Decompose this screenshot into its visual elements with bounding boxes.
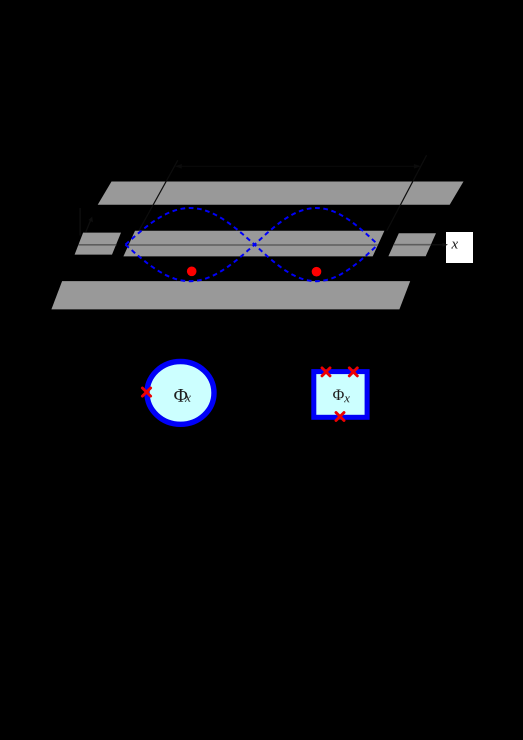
node qubit dot left <box>187 267 197 277</box>
wire gap line on left coupler <box>79 244 117 246</box>
wire gap line on main segment <box>129 244 378 246</box>
wire arrowhead right <box>414 164 421 169</box>
wire arrowhead left <box>175 164 182 169</box>
center conductor left coupler segment <box>75 233 121 255</box>
wire tick left (resonator end marker) <box>139 160 178 230</box>
center conductor main segment <box>123 231 384 257</box>
ground plane bottom bar <box>51 281 410 309</box>
ground plane top bar <box>98 182 464 205</box>
node x label <box>451 242 458 249</box>
node flux label square <box>333 390 344 400</box>
junction X square top-left <box>322 368 330 376</box>
wire standing wave mode A (blue dashed) <box>125 208 378 281</box>
rf-SQUID loop (circle) <box>147 362 214 425</box>
wire gap line on right coupler <box>394 244 431 246</box>
center conductor right coupler segment <box>388 233 436 256</box>
node x label box <box>446 232 473 263</box>
wire tick right (resonator end marker) <box>387 155 427 231</box>
wire leader arrow left <box>86 218 92 232</box>
wire standing wave mode B (blue dashed) <box>125 208 378 281</box>
node flux label circle <box>174 389 187 402</box>
junction X square bottom <box>336 413 344 421</box>
wire leader vertical left <box>79 208 81 236</box>
junction X square top-right <box>349 368 357 376</box>
node qubit dot right <box>312 267 322 277</box>
wire dimension line lambda <box>178 165 419 167</box>
flux qubit loop (square) <box>314 372 367 418</box>
junction X on circle <box>142 388 150 396</box>
wire x-axis arrow <box>432 244 445 246</box>
